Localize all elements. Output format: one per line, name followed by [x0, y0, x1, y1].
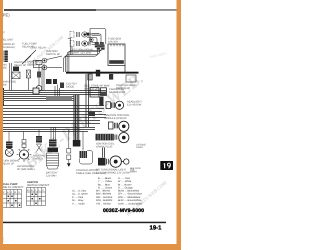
meter terminal: [86, 33, 88, 35]
junction box J1: [33, 88, 39, 94]
bundle end connector: [73, 140, 81, 147]
riser to assembly 4: [103, 148, 105, 158]
svg-text:MODULE (ICM) 8P: MODULE (ICM) 8P: [105, 117, 127, 120]
coil assembly 2 socket: [109, 122, 114, 129]
label right mid: [109, 88, 125, 94]
bundle connector pair: [97, 45, 105, 51]
relay K1 body: [12, 72, 20, 79]
left margin label A: [0, 31, 5, 34]
neutral switch connector: [36, 136, 42, 143]
connector bars CB2: [46, 79, 57, 84]
svg-text:LIGHT: LIGHT: [136, 146, 144, 149]
bus dark segment: [88, 112, 95, 116]
wire assembly4 link: [121, 161, 123, 163]
label ICM: [105, 114, 130, 120]
label bus mid: [84, 85, 99, 91]
connector stack CN3: [0, 88, 4, 106]
svg-text:CONT RELAY: CONT RELAY: [30, 47, 47, 50]
connector 4P box: [101, 88, 107, 96]
table T1 header: [3, 183, 24, 189]
svg-text:SWITCH 4P: SWITCH 4P: [46, 53, 60, 56]
coil assembly 3 pins: [115, 135, 117, 140]
svg-text:0030Z-MV9-6000: 0030Z-MV9-6000: [103, 208, 144, 214]
bus line 14: [0, 127, 95, 129]
fuse F2 wire: [29, 65, 40, 90]
svg-text:RELAY CONTACT: RELAY CONTACT: [3, 186, 24, 189]
watermark layer (decorative): [1, 35, 169, 244]
fuse box lower band: [109, 60, 124, 64]
svg-text:3P (NATURAL): 3P (NATURAL): [17, 168, 35, 171]
relay connector K1: [13, 67, 19, 72]
connector stack CN4: [0, 108, 3, 113]
wire fusebox drop: [124, 66, 126, 73]
label neutral: [33, 155, 46, 161]
left margin label D: [0, 156, 3, 159]
fuse F2 circle: [36, 86, 42, 92]
assembly 4 bulb: [110, 156, 121, 167]
battery connector: [49, 140, 57, 147]
battery plates: [47, 153, 59, 169]
drop wire x39: [38, 130, 40, 137]
page edge right: [177, 0, 182, 250]
footer rule: [0, 222, 166, 224]
bus line 6: [0, 100, 74, 102]
label bus left: [66, 83, 77, 89]
svg-text:12V 60/55W: 12V 60/55W: [127, 103, 142, 106]
drop wire x23: [23, 132, 25, 140]
label ignition switch: [46, 50, 60, 56]
FR turn signal R connector: [70, 32, 74, 38]
bus line 8: [0, 108, 104, 110]
coil assembly 3 connector band: [96, 134, 115, 141]
bus blob connector: [96, 70, 100, 77]
fuse F2 body: [27, 70, 31, 78]
svg-text:SEE PAGE: SEE PAGE: [130, 167, 141, 170]
harness bundle curve w4: [69, 47, 104, 72]
neutral switch body: [37, 144, 42, 152]
table T1 grid: [3, 190, 22, 208]
connector grid box: [90, 88, 99, 98]
svg-text:RELAY 2P: RELAY 2P: [2, 162, 14, 165]
svg-text:SWITCH CONTACT: SWITCH CONTACT: [27, 184, 50, 187]
label 4P: [100, 85, 110, 88]
drop wire x53: [51, 127, 56, 140]
fuse F3 body: [37, 72, 41, 78]
flasher body: [5, 148, 13, 156]
FR turn signal R bulb: [82, 32, 88, 37]
comp small E1: [60, 83, 64, 89]
main ground bus: [66, 72, 139, 74]
comp small E2: [99, 97, 103, 107]
bus line 11: [0, 117, 106, 119]
svg-text:IG: IG: [27, 189, 30, 192]
left margin label C: [0, 43, 15, 49]
table T2 grid: [27, 188, 46, 206]
bus line 2: [0, 92, 106, 94]
thick harness bundle: [74, 95, 79, 141]
svg-text:SWITCH: SWITCH: [33, 157, 43, 160]
bus line 10: [0, 114, 106, 116]
FR turn signal L pins: [77, 41, 80, 46]
wire switch out bottom: [47, 67, 62, 69]
harness bundle curve w1: [64, 50, 98, 72]
coil assembly 1 socket: [106, 102, 111, 109]
bus line 12: [0, 120, 100, 122]
generator link chain: [22, 140, 26, 148]
wire TS R to bundle: [92, 34, 101, 36]
harness bundle curve w3: [67, 49, 101, 73]
meter loop outer box: [90, 29, 106, 45]
flasher connector: [6, 142, 13, 149]
label relay: [14, 61, 26, 67]
drop wire x83: [82, 132, 84, 149]
fuse link chain: [67, 146, 71, 167]
svg-text:Lb/W .... Lt.blue/White: Lb/W .... Lt.blue/White: [118, 202, 143, 205]
horn H1: [36, 61, 42, 65]
page edge bottom: [0, 244, 181, 250]
label right small: [130, 168, 138, 174]
ignition switch SW1: [42, 58, 47, 70]
label rr fender: [136, 144, 147, 150]
bus line 1: [0, 90, 106, 92]
bus comp D1: [109, 74, 113, 80]
page edge left: [0, 0, 3, 250]
label flasher: [2, 160, 20, 166]
svg-text:Y/G .. Yel/Grn: Y/G .. Yel/Grn: [96, 202, 112, 205]
assembly 4 socket: [98, 158, 106, 166]
wire diagonal short: [25, 56, 31, 62]
bus line 3: [0, 94, 106, 96]
starter loop wire: [80, 148, 93, 164]
wire switch out top: [47, 56, 62, 60]
label assembly 4: [96, 169, 130, 175]
coil assembly 3 bulb: [119, 133, 129, 143]
svg-text:10A 10A: 10A 10A: [108, 40, 118, 43]
bus line 9: [0, 111, 102, 113]
label left cluster: [0, 64, 7, 70]
coil assembly 2 pins: [115, 123, 118, 129]
svg-text:12V 8AH: 12V 8AH: [46, 174, 57, 177]
wire switch left leg top: [33, 60, 42, 62]
wire switch left riser: [32, 61, 34, 68]
FR turn signal L bulb: [82, 41, 88, 46]
fuse box FB1: [108, 44, 125, 66]
drop wire x9: [8, 132, 10, 142]
label turn signals: [72, 49, 94, 55]
wire diagonal to switch: [22, 50, 36, 64]
table T1 marks: [3, 191, 20, 206]
header rule: [4, 9, 96, 11]
meter loop wire outer: [87, 34, 101, 44]
svg-text:GENERATOR: GENERATOR: [109, 91, 125, 94]
starter comp body: [80, 151, 88, 158]
svg-text:V ..... Violet: V ..... Violet: [72, 202, 85, 205]
connector stack CN1: [0, 51, 8, 63]
table T2 header: [27, 181, 50, 187]
drop wire x71: [68, 130, 70, 147]
label fuel pump: [22, 43, 37, 49]
chapter tab 19: [160, 161, 173, 170]
label generator: [17, 165, 35, 171]
wire TS L to bundle: [92, 43, 97, 45]
wire pair left riser: [10, 63, 12, 90]
svg-text:19-2: 19-2: [130, 170, 135, 173]
bus hatched connector: [88, 74, 92, 80]
riser x42: [41, 66, 43, 90]
svg-text:CABLE (SEE PAGE 18-2): CABLE (SEE PAGE 18-2): [76, 172, 106, 175]
label block upper: [30, 47, 47, 50]
bus line 5: [0, 98, 74, 100]
FR turn signal L pins out: [89, 42, 90, 46]
riser x55 group: [55, 85, 60, 97]
bus line 15: [0, 129, 95, 131]
harness bundle curve w2: [65, 50, 99, 72]
legend note: [0, 0, 1, 1]
FR turn signal R pins: [77, 32, 80, 37]
label battery: [46, 172, 58, 178]
bus line 7: [0, 105, 104, 107]
coil assembly 2 bulb: [119, 121, 129, 131]
riser x86 pair: [86, 74, 89, 127]
label main fuse: [2, 81, 16, 87]
battery cap: [48, 148, 59, 153]
coil assembly 1 pins: [112, 103, 115, 108]
fuse box label: [108, 38, 121, 44]
label bus right: [116, 84, 137, 90]
svg-text:19-1: 19-1: [150, 225, 163, 232]
bus outline comp: [126, 75, 136, 82]
meter bulb: [89, 38, 93, 42]
bus line 16: [0, 131, 88, 133]
table T2 marks: [27, 189, 44, 204]
bus line 4: [0, 96, 74, 98]
label coil 1: [127, 101, 142, 107]
fuse box pins: [111, 44, 123, 46]
assembly 4 tip: [124, 159, 129, 164]
bus gray band: [46, 96, 72, 101]
wire switch left leg bottom: [33, 67, 42, 69]
meter connector blobs: [95, 42, 104, 47]
left margin label B: [0, 39, 14, 42]
svg-text:SENSOR 3P: SENSOR 3P: [27, 63, 42, 66]
assembly 4 pins: [107, 159, 109, 165]
svg-text:DIODE: DIODE: [66, 85, 74, 88]
label coil 3: [96, 143, 115, 149]
label starter: [76, 169, 106, 175]
bus line 13: [0, 123, 100, 125]
generator G1: [17, 147, 32, 162]
wire TS left drop: [68, 38, 72, 55]
FR turn signal L connector: [70, 41, 74, 47]
riser horn pair: [43, 64, 45, 90]
label horn: [27, 61, 44, 67]
meter loop wire inner: [87, 38, 97, 45]
FR turn signal R pins out: [89, 33, 90, 37]
coil assembly 1 bulb: [115, 101, 123, 109]
svg-text:RELAY 4P: RELAY 4P: [14, 64, 26, 67]
